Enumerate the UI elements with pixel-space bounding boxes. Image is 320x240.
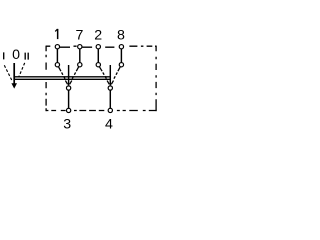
svg-text:7: 7 <box>75 27 83 43</box>
svg-text:2: 2 <box>94 27 102 43</box>
svg-text:0: 0 <box>12 47 20 63</box>
svg-text:3: 3 <box>63 116 71 132</box>
svg-text:4: 4 <box>105 116 113 132</box>
svg-text:8: 8 <box>117 27 125 43</box>
